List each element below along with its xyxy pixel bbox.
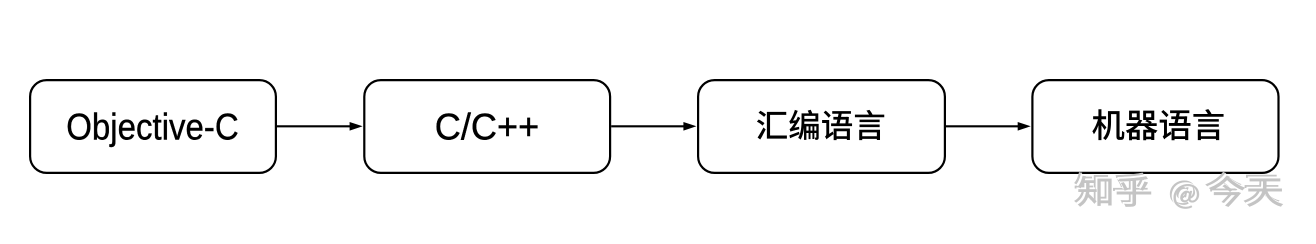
svg-text:C/C++: C/C++ — [435, 105, 540, 147]
arrow 3 — [946, 122, 1031, 131]
arrow 2 — [611, 122, 696, 131]
svg-text:Objective-C: Objective-C — [66, 105, 239, 147]
box assembly-language — [698, 80, 945, 173]
watermark zhihu-@jintian — [1074, 172, 1279, 205]
label machine-language — [1092, 109, 1223, 140]
box Objective-C — [30, 80, 276, 173]
box C/C++ — [364, 80, 610, 173]
box machine-language — [1032, 80, 1278, 173]
arrow 1 — [277, 122, 363, 131]
label assembly-language — [757, 110, 884, 140]
